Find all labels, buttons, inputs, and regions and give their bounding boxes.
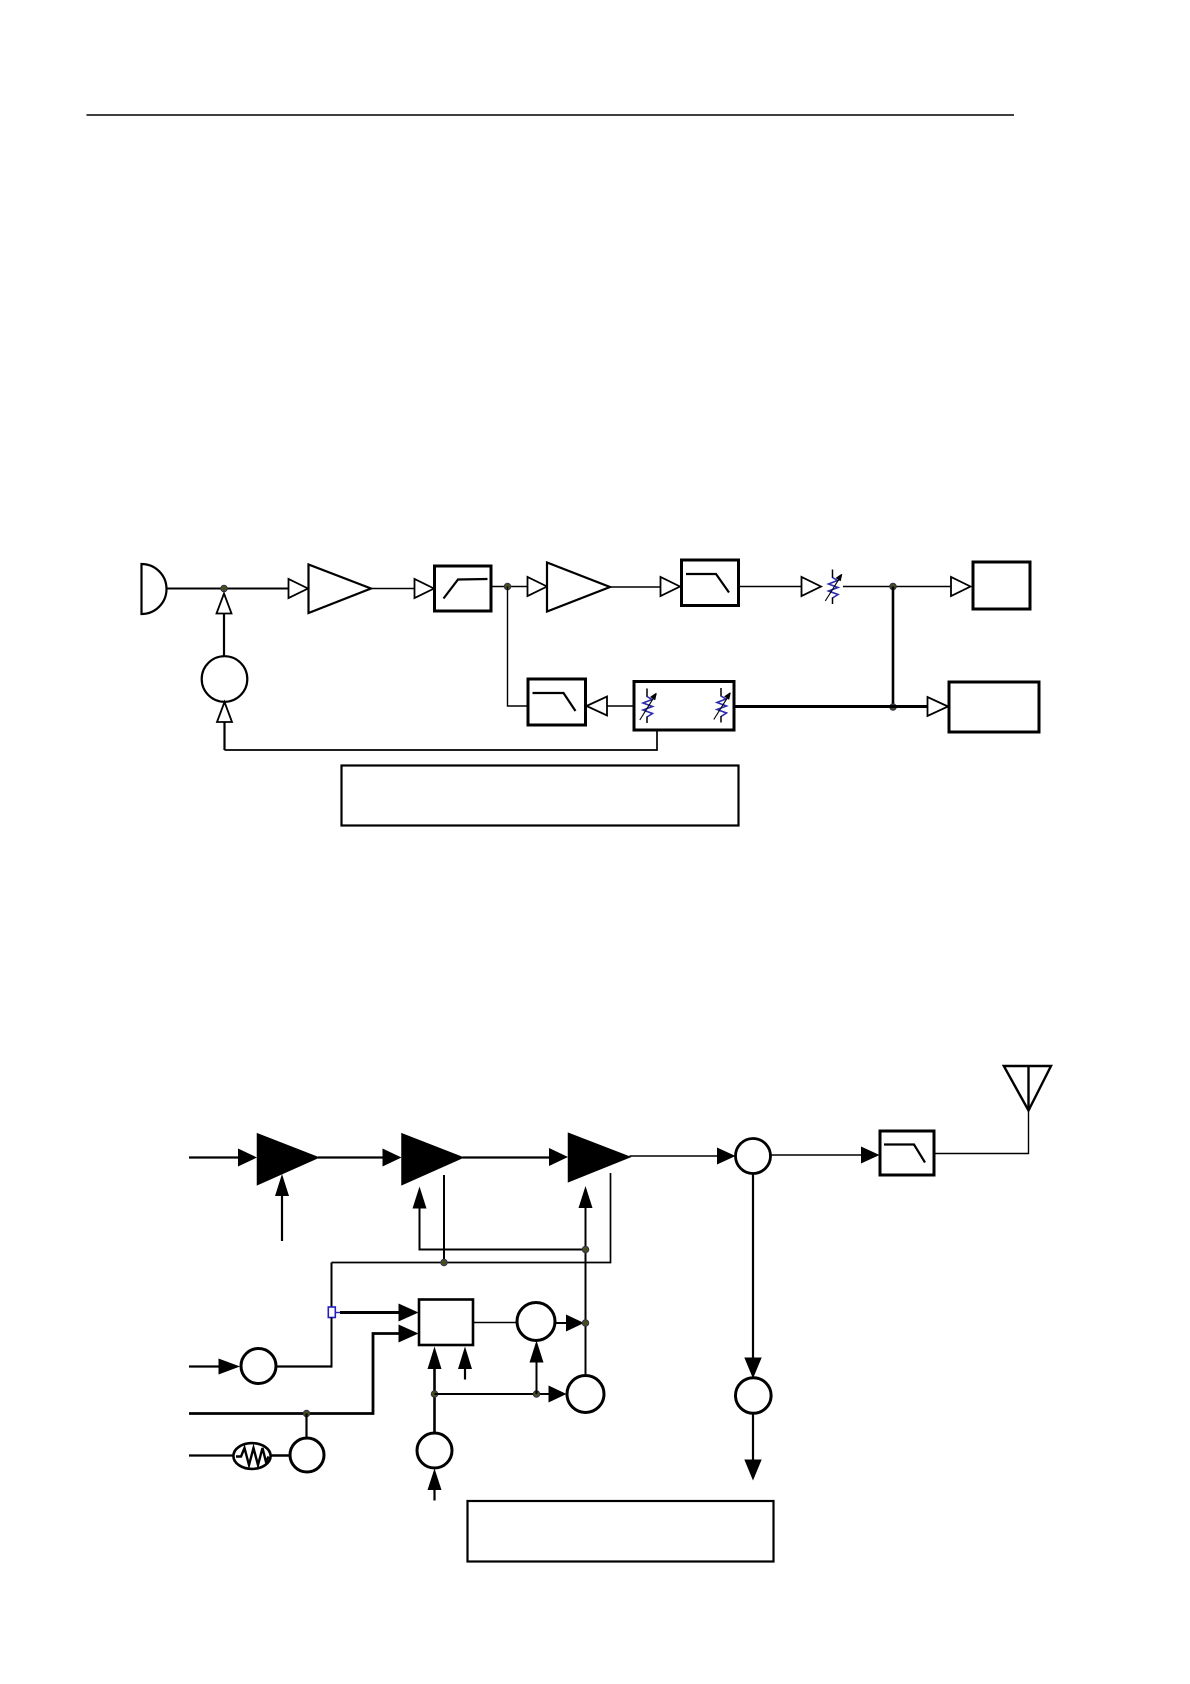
arrowhead into FL2 (661, 577, 681, 596)
wire bias PA2 to control rail (420, 1208, 586, 1250)
bias arrow PA1 (275, 1174, 289, 1196)
arrowhead into VR1 (802, 577, 822, 596)
wire input to thermistor R1 (189, 1454, 234, 1456)
wire J2 down to filter FL3 (508, 587, 529, 707)
arrowhead U1 bottom right stub (458, 1347, 472, 1370)
arrowhead into FL1 (415, 579, 435, 598)
wire PA2 to PA3 (463, 1156, 550, 1158)
source V2 (567, 1376, 604, 1413)
wire PA1 to PA2 (318, 1156, 383, 1158)
horizontal rule (87, 114, 1015, 116)
wire tap PA3 output (332, 1173, 611, 1263)
arrowhead M1 into rail (566, 1315, 584, 1332)
attenuator block ATT1 (634, 682, 734, 731)
wire reference into U1 (189, 1334, 399, 1414)
coupler CP1 (736, 1139, 771, 1174)
wire J8 to source V2 (435, 1393, 550, 1395)
wire PA3 to coupler CP1 (630, 1155, 718, 1157)
wire input to detector D1 (189, 1365, 219, 1367)
wire A2 to filter FL2 (610, 586, 661, 588)
arrowhead into PA3 (549, 1148, 568, 1166)
arrowhead into node J1 (217, 594, 232, 614)
arrowhead U1 bottom left (428, 1347, 442, 1370)
wire FL2 to attenuator VR1 (739, 586, 802, 588)
arrow into V1 bottom (428, 1469, 442, 1491)
wire control rail vertical (585, 1208, 587, 1376)
wire FL4 to antenna ANT1 (934, 1111, 1029, 1154)
variable resistor VR2 (640, 689, 657, 724)
meter M2 (736, 1378, 772, 1414)
variable resistor VR3 (714, 688, 731, 723)
wire D1 to riser (276, 1365, 333, 1367)
low-pass filter FL4 (880, 1131, 934, 1175)
wire U1 to source V1 (433, 1369, 436, 1434)
wire oscillator B1 to J1 (223, 613, 225, 657)
arrowhead into U1 upper (399, 1304, 419, 1322)
wire attenuator ATT1 to J4 and box BX2 (735, 705, 928, 708)
amplifier A2 (547, 563, 610, 612)
power amp PA2 (402, 1134, 463, 1185)
wire P1 down to detector line (331, 1318, 333, 1368)
wire down to port P1 (331, 1263, 333, 1308)
arrowhead into CP1 (717, 1148, 736, 1165)
wire VR1 to node J3 (843, 586, 951, 588)
arrowhead ATT1 into FL3 (587, 697, 608, 716)
arrowhead into amp A1 (289, 579, 309, 598)
box BX1 (973, 562, 1030, 609)
arrowhead into B1 (217, 702, 232, 722)
wire P1 to comparator U1 (340, 1311, 399, 1314)
arrowhead into detector D1 (219, 1359, 241, 1375)
arrowhead into amp A2 (528, 577, 548, 596)
power amp PA1 (258, 1134, 319, 1185)
wire M1 to control rail (555, 1322, 567, 1324)
low-pass filter FL2 (682, 560, 739, 606)
arrowhead into PA2 (383, 1149, 402, 1167)
comparator U1 (419, 1300, 473, 1346)
arrowhead into source V2 (549, 1386, 567, 1403)
wire A1 to filter FL1 (371, 588, 415, 590)
wire tap PA2 output (443, 1175, 445, 1263)
node J3 (890, 583, 897, 590)
wire CP1 to filter FL4 (771, 1154, 862, 1156)
mixer M1 (517, 1303, 555, 1341)
label box LB2 (468, 1501, 774, 1562)
node J10 (582, 1320, 589, 1327)
arrowhead into U1 lower (399, 1325, 419, 1343)
oscillator B1 (202, 656, 248, 702)
wire R1 to sensor S1 (271, 1454, 291, 1457)
node J9 (533, 1391, 540, 1398)
port P1 (328, 1307, 335, 1318)
bias arrow PA3 (579, 1186, 593, 1208)
microphone MIC1 (142, 564, 167, 614)
wire CP1 down to meter M2 (752, 1174, 754, 1359)
wire feedback from attenuator ATT1 (225, 731, 658, 750)
node J2 (504, 583, 511, 590)
detector D1 (241, 1349, 276, 1384)
amplifier A1 (309, 565, 372, 614)
box BX2 (949, 682, 1039, 732)
arrowhead into PA1 (238, 1149, 257, 1167)
arrowhead output down (744, 1460, 761, 1481)
source V1 (417, 1433, 452, 1468)
sensor S1 (290, 1438, 324, 1472)
label box LB1 (342, 766, 739, 826)
wire FL1 to amp A2 (491, 586, 528, 588)
wire U1 output to M1 (473, 1322, 517, 1324)
node J5 (582, 1246, 589, 1253)
high-pass filter FL1 (435, 566, 492, 611)
bias arrow PA2 (413, 1187, 427, 1209)
low-pass filter FL3 (528, 679, 586, 725)
node J4 (890, 704, 897, 711)
wire J9 up to mixer M1 (536, 1363, 538, 1395)
arrowhead into meter M2 (744, 1358, 761, 1379)
power amp PA3 (569, 1134, 630, 1182)
thermistor R1 (233, 1443, 270, 1469)
arrowhead into box BX1 (951, 577, 971, 596)
wire feedback riser into B1 (223, 722, 225, 751)
arrowhead into box BX2 (928, 697, 949, 716)
wire input to PA1 (189, 1156, 239, 1158)
variable attenuator VR1 (825, 570, 842, 605)
antenna ANT1 (1004, 1066, 1051, 1111)
node J1 (221, 585, 228, 592)
wire J7 to sensor S1 (305, 1414, 307, 1439)
node J7 (303, 1410, 310, 1417)
arrowhead into mixer M1 (530, 1341, 544, 1363)
wire J3 down to node J4 (892, 587, 895, 708)
wire mic to amp A1 (167, 588, 289, 590)
node J8 (431, 1391, 438, 1398)
wire ATT1 to FL3 (607, 705, 634, 707)
arrowhead into FL4 (861, 1147, 880, 1164)
node J6 (441, 1259, 448, 1266)
wire P1 blue stub (335, 1312, 341, 1314)
wire M2 down output (752, 1414, 754, 1460)
